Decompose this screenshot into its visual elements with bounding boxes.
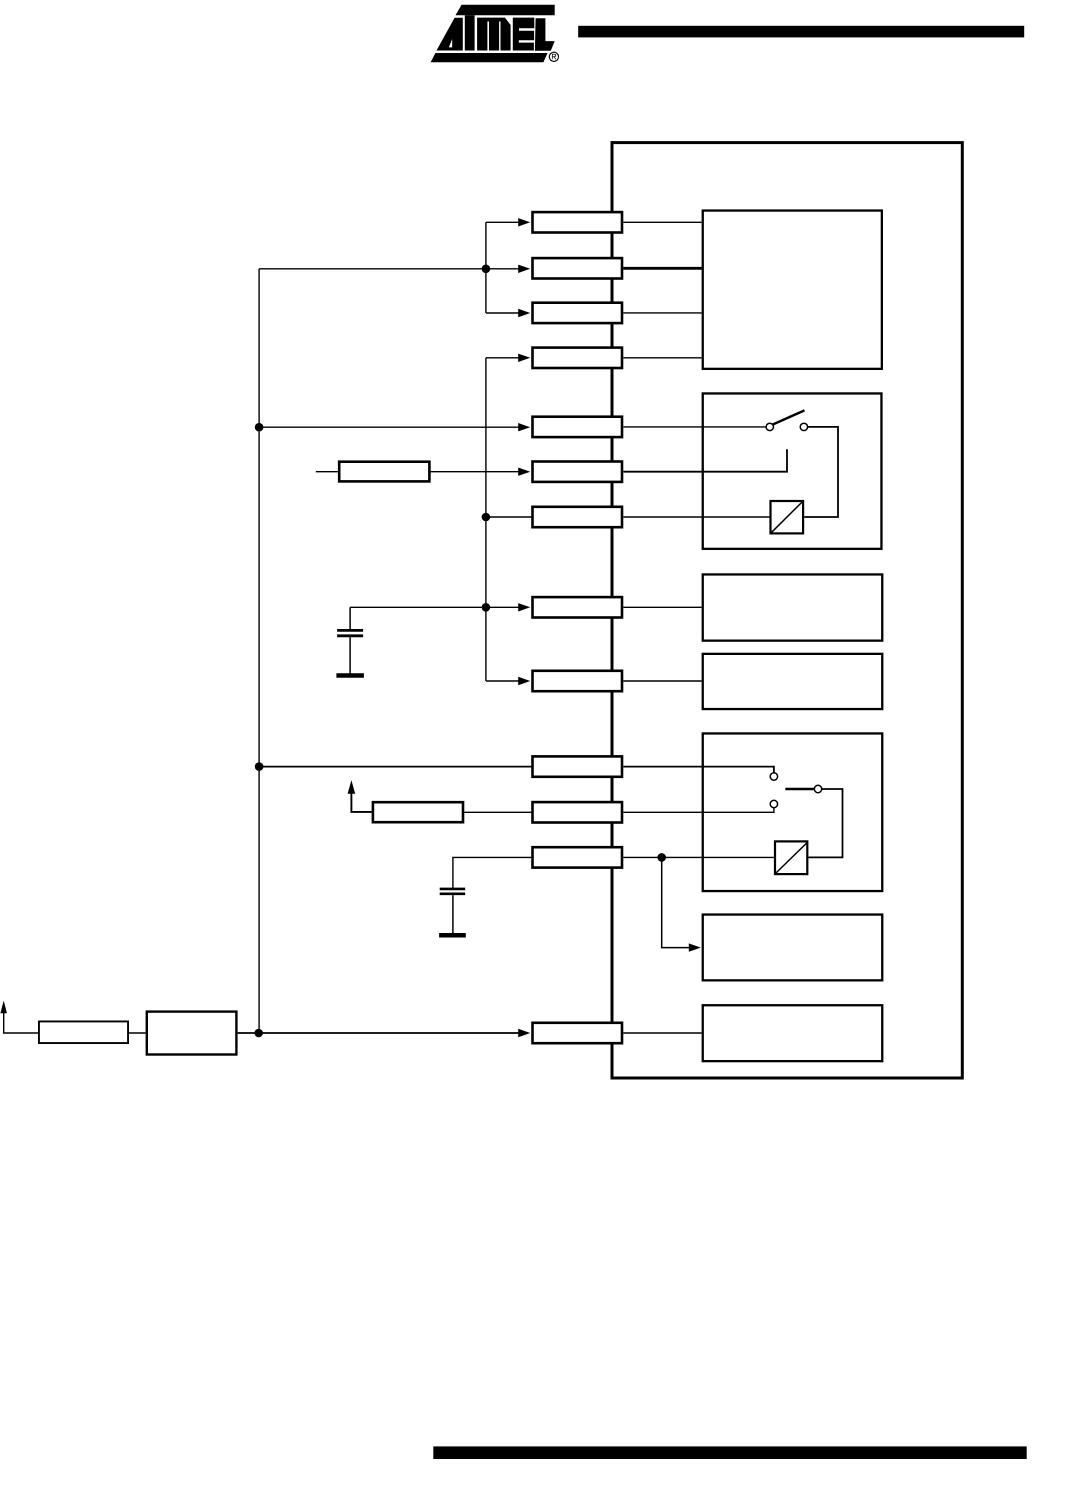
block B7 bbox=[703, 1005, 883, 1061]
wire PB1 to B1 bbox=[623, 221, 701, 223]
pin box PB7 bbox=[533, 507, 623, 527]
block B4 bbox=[703, 654, 883, 709]
left vertical bus wire bbox=[258, 269, 260, 1033]
block B1 bbox=[703, 211, 882, 369]
switch SW2 contact circle top bbox=[770, 773, 777, 780]
pin box PB3 bbox=[533, 303, 623, 323]
switch SW1 lever bbox=[773, 410, 805, 424]
up arrow VCC1 bbox=[4, 1012, 39, 1033]
wire arrow into PB9 bbox=[486, 680, 519, 682]
block B5 bbox=[703, 733, 883, 891]
wire arrow into PB3 bbox=[486, 312, 519, 314]
switch SW1 contact circle right bbox=[800, 423, 807, 430]
wire top horizontal to PB2 bbox=[259, 268, 519, 270]
footer rule bar bbox=[433, 1446, 1026, 1459]
pin box PB11 bbox=[533, 802, 623, 822]
wire PB12 to ADC2 bbox=[623, 856, 774, 858]
wire PB2 to B1 (bold) bbox=[623, 267, 701, 270]
pin box PB8 bbox=[533, 597, 623, 617]
pin box PB13 bbox=[533, 1023, 623, 1043]
junction dot C bbox=[482, 603, 491, 612]
wire R2 into PB11 bbox=[464, 811, 532, 813]
wire SW2 to ADC2 bbox=[808, 789, 842, 857]
block B6 bbox=[703, 915, 883, 981]
wire PB13 to B7 bbox=[623, 1032, 701, 1034]
pin box PB4 bbox=[533, 348, 623, 368]
wire PB10 to switch SW2 bbox=[623, 767, 774, 773]
wire PB11 to switch SW2 bbox=[623, 808, 774, 812]
ground GND1 bbox=[336, 673, 364, 677]
resistor R2 bbox=[373, 802, 463, 822]
vertical wire PB1-PB3 bbox=[485, 222, 487, 313]
wire branch to B6 with arrow bbox=[662, 857, 690, 947]
vertical wire PB4-PB9 bbox=[485, 358, 487, 681]
wire into PB7 bbox=[486, 516, 532, 518]
wire capacitor C1 to PB8 arrow bbox=[350, 606, 519, 608]
wire PB6 stub to SW1 pole bbox=[623, 449, 787, 472]
wire arrow into PB1 bbox=[486, 221, 519, 223]
junction dot A bbox=[482, 265, 491, 274]
header rule bar bbox=[578, 26, 1024, 38]
switch SW2 lever bbox=[785, 788, 813, 790]
pin box PB12 bbox=[533, 847, 623, 867]
wire PB5 to switch SW1 bbox=[623, 426, 766, 428]
capacitor C2 bbox=[440, 888, 466, 891]
pin box PB6 bbox=[533, 462, 623, 482]
resistor R3 bbox=[39, 1021, 128, 1043]
junction dot D bbox=[255, 423, 264, 432]
wire into PB10 bbox=[259, 766, 532, 768]
wire capacitor C2 to PB12 bbox=[453, 857, 532, 889]
junction dot F bbox=[254, 1029, 263, 1038]
pin box PB1 bbox=[533, 212, 623, 232]
wire arrow into PB5 bbox=[259, 426, 519, 428]
wire PB9 to B4 bbox=[623, 680, 701, 682]
wire PB4 to B1 bbox=[623, 357, 701, 359]
junction dot B bbox=[482, 513, 491, 522]
wire PB3 to B1 bbox=[623, 312, 701, 314]
block B3 bbox=[703, 574, 883, 640]
up arrow VCC2 bbox=[351, 793, 371, 812]
pin box PB2 bbox=[533, 258, 623, 278]
pin box PB10 bbox=[533, 756, 623, 776]
oscillator box X1 bbox=[147, 1012, 237, 1055]
ADC2 converter box bbox=[775, 841, 807, 874]
Atmel logo bbox=[431, 5, 559, 63]
resistor R1 stub wire bbox=[316, 471, 338, 473]
ADC1 converter box bbox=[771, 501, 804, 533]
wire arrow into PB4 bbox=[486, 357, 519, 359]
chip outline U1 bbox=[612, 143, 962, 1078]
switch SW1 contact circle left bbox=[766, 423, 773, 430]
wire R3 to oscillator bbox=[129, 1032, 146, 1034]
pin box PB9 bbox=[533, 671, 623, 691]
resistor R1 bbox=[339, 462, 429, 482]
wire SW1 to ADC1 bbox=[804, 427, 838, 517]
pin box PB5 bbox=[533, 417, 623, 437]
block B2 bbox=[703, 393, 882, 548]
wire oscillator arrow into PB13 bbox=[238, 1032, 519, 1034]
capacitor C1 bbox=[349, 607, 351, 629]
junction dot on PB12 wire bbox=[657, 853, 666, 862]
wire PB7 to ADC1 bbox=[623, 516, 769, 518]
switch SW2 contact circle bottom bbox=[770, 800, 777, 807]
wire R1 arrow into PB6 bbox=[431, 471, 519, 473]
ground GND2 bbox=[439, 933, 466, 938]
switch SW2 contact circle right bbox=[814, 785, 821, 792]
junction dot E bbox=[255, 762, 264, 771]
wire PB8 to B3 bbox=[623, 606, 701, 608]
